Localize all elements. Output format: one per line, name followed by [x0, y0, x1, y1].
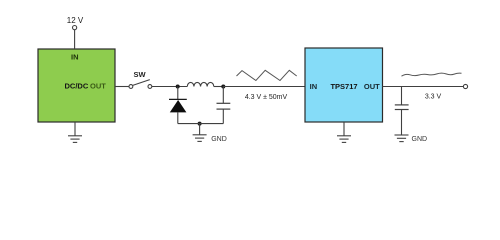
svg-text:IN: IN [71, 53, 79, 62]
svg-text:4.3 V ± 50mV: 4.3 V ± 50mV [245, 94, 288, 101]
svg-text:OUT: OUT [90, 82, 106, 91]
svg-text:GND: GND [412, 136, 428, 143]
svg-text:12 V: 12 V [67, 16, 84, 25]
svg-text:TPS717: TPS717 [330, 82, 357, 91]
svg-text:DC/DC: DC/DC [65, 82, 89, 91]
svg-text:OUT: OUT [364, 82, 380, 91]
svg-text:SW: SW [133, 70, 146, 79]
svg-text:IN: IN [310, 82, 318, 91]
svg-text:GND: GND [211, 136, 227, 143]
svg-text:3.3 V: 3.3 V [425, 93, 442, 100]
